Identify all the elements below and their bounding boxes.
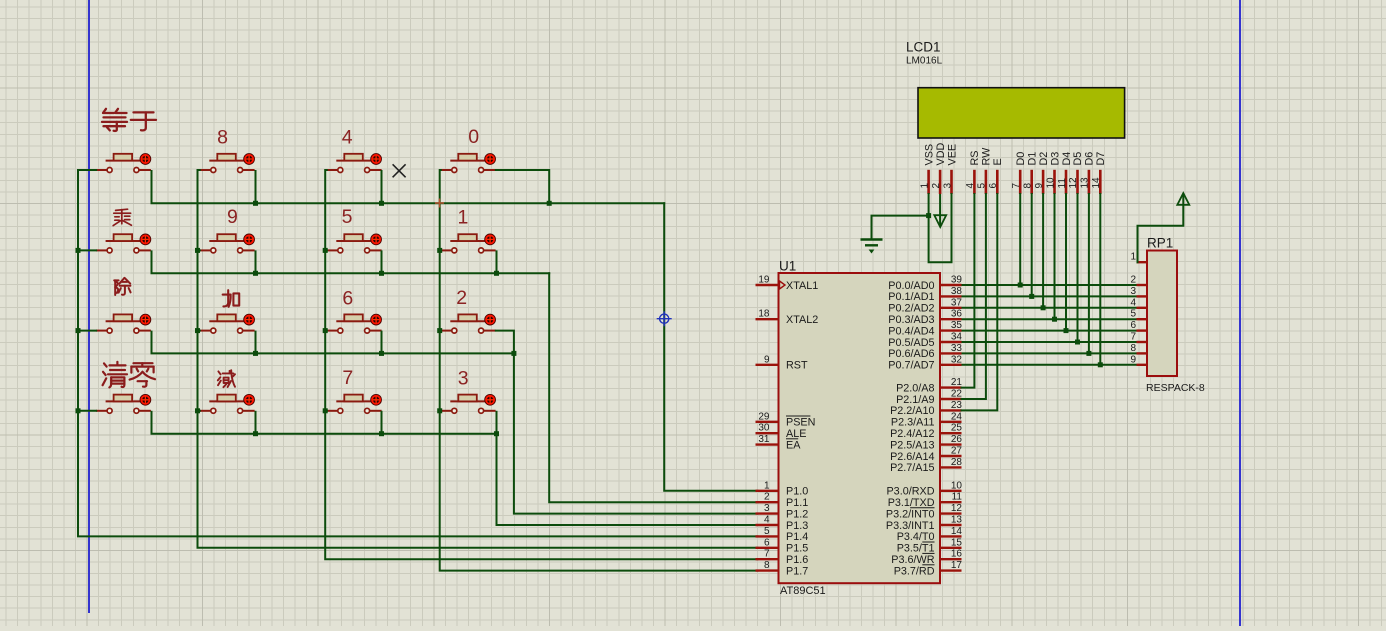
svg-text:31: 31 <box>758 434 770 445</box>
pin 38 (P0.1/AD1) stub <box>940 295 962 297</box>
svg-text:6: 6 <box>342 288 353 310</box>
wire keypad column 4 vertical <box>440 170 758 571</box>
svg-text:PSEN: PSEN <box>786 417 815 429</box>
svg-text:XTAL2: XTAL2 <box>786 314 818 326</box>
svg-text:2: 2 <box>456 287 467 309</box>
push button BTN0 (0) <box>441 154 496 173</box>
wire P0.0 to RP1 pin 2 <box>962 284 1137 286</box>
RP1 pin 7 stub <box>1137 341 1148 343</box>
svg-text:D1: D1 <box>1027 152 1039 166</box>
RP1 pin 5 stub <box>1137 318 1148 320</box>
wire column 1 to button row 3 <box>78 330 97 332</box>
wire RP1 pin1 to power <box>1138 195 1184 263</box>
RP1 pin 3 stub <box>1137 295 1148 297</box>
label 零 (ling) <box>130 363 155 387</box>
pin 29 (PSEN) stub <box>756 421 779 423</box>
svg-text:4: 4 <box>965 183 976 189</box>
svg-text:6: 6 <box>988 183 999 189</box>
svg-text:16: 16 <box>951 549 963 560</box>
wire P0.5 to RP1 pin 7 <box>962 341 1137 343</box>
svg-text:6: 6 <box>1130 320 1136 331</box>
junction column 4 row 3 <box>437 328 442 333</box>
label 清 (qing) <box>103 362 127 388</box>
svg-text:35: 35 <box>951 320 963 331</box>
label 等 (deng) <box>102 109 127 131</box>
wire button row 3 col 4 to x514 <box>496 331 514 354</box>
wire LCD D6 to P0.6 <box>1088 194 1090 353</box>
svg-text:0: 0 <box>468 126 479 148</box>
wire LCD D5 to P0.5 <box>1077 194 1079 342</box>
svg-text:D2: D2 <box>1038 152 1050 166</box>
power terminal up arrow <box>1177 193 1189 205</box>
svg-text:P3.1/TXD: P3.1/TXD <box>888 497 935 509</box>
wire VSS-VEE ground loop <box>929 194 952 262</box>
wire button row 4 col 4 drop <box>496 411 498 434</box>
wire button row 1 col 1 drop <box>151 170 153 203</box>
junction D4 <box>1064 328 1069 333</box>
svg-text:14: 14 <box>951 526 963 537</box>
svg-text:RS: RS <box>969 151 981 166</box>
wire column 2 to button row 2 <box>198 249 201 251</box>
svg-text:RESPACK-8: RESPACK-8 <box>1146 382 1205 394</box>
op U1 chip body <box>779 273 941 583</box>
svg-text:2: 2 <box>1130 275 1136 286</box>
clock marker XTAL1 <box>780 281 786 289</box>
wire row1 to P1.0 <box>664 203 757 491</box>
svg-text:P0.0/AD0: P0.0/AD0 <box>888 280 934 292</box>
wire LCD D2 to P0.2 <box>1042 194 1044 308</box>
svg-text:U1: U1 <box>779 259 796 274</box>
pin 2 (P1.1) stub <box>756 501 779 503</box>
pin 39 (P0.0/AD0) stub <box>940 284 962 286</box>
svg-text:22: 22 <box>951 389 963 400</box>
pin 22 (P2.1/A9) stub <box>940 398 962 400</box>
push button BTNm (减) <box>200 394 255 413</box>
svg-text:P1.5: P1.5 <box>786 543 808 555</box>
LCD pin 11 (D4) <box>1065 170 1068 194</box>
wire column 4 to button row 2 <box>440 249 442 251</box>
wire column 3 to button row 1 <box>325 169 328 171</box>
push button BTN5 (5) <box>327 234 382 253</box>
svg-text:P2.6/A14: P2.6/A14 <box>890 451 934 463</box>
LCD pin 14 (D7) <box>1099 170 1102 194</box>
push button BTN8 (8) <box>200 154 255 173</box>
wire LCD D7 to P0.7 <box>1099 194 1101 365</box>
svg-text:13: 13 <box>951 515 963 526</box>
wire button row 2 col 3 drop <box>381 250 383 273</box>
svg-text:P0.6/AD6: P0.6/AD6 <box>888 348 934 360</box>
LCD pin 8 (D1) <box>1030 170 1033 194</box>
pin 13 (P3.3/INT1) stub <box>940 524 962 526</box>
svg-text:5: 5 <box>1130 309 1136 320</box>
pin 15 (P3.5/T1) stub <box>940 547 962 549</box>
pin 5 (P1.4) stub <box>756 535 779 537</box>
push button BTNx (乘) <box>96 234 151 253</box>
push button BTN= (等于) <box>96 154 151 173</box>
svg-text:P2.1/A9: P2.1/A9 <box>896 394 934 406</box>
svg-text:30: 30 <box>758 423 770 434</box>
svg-text:VDD: VDD <box>935 143 947 166</box>
svg-text:LCD1: LCD1 <box>906 40 941 55</box>
pin 23 (P2.2/A10) stub <box>940 409 962 411</box>
push button BTN6 (6) <box>327 314 382 333</box>
svg-text:P0.2/AD2: P0.2/AD2 <box>888 303 934 315</box>
pin 30 (ALE) stub <box>756 432 779 434</box>
pin 14 (P3.4/T0) stub <box>940 535 962 537</box>
svg-text:12: 12 <box>951 503 963 514</box>
pin 24 (P2.3/A11) stub <box>940 421 962 423</box>
junction D6 <box>1086 351 1091 356</box>
wire column 3 to button row 3 <box>325 330 328 332</box>
svg-text:9: 9 <box>1034 183 1045 189</box>
pin 17 (P3.7/RD) stub <box>940 569 962 571</box>
junction column 3 row 3 <box>323 328 328 333</box>
svg-text:4: 4 <box>1130 297 1136 308</box>
pin 27 (P2.6/A14) stub <box>940 455 962 457</box>
display LCD1 body <box>918 88 1125 138</box>
pin 25 (P2.4/A12) stub <box>940 432 962 434</box>
LCD pin 9 (D2) <box>1042 170 1045 194</box>
pin 8 (P1.7) stub <box>756 569 779 571</box>
svg-text:6: 6 <box>764 537 770 548</box>
pin 4 (P1.3) stub <box>756 524 779 526</box>
pin 9 (RST) stub <box>756 364 779 366</box>
push button BTNd (除) <box>96 314 151 333</box>
svg-text:D3: D3 <box>1049 152 1061 166</box>
svg-text:P0.7/AD7: P0.7/AD7 <box>888 360 934 372</box>
wire column 4 to button row 1 <box>440 169 442 171</box>
wire row4 to P1.3 <box>497 434 758 525</box>
wire button row 3 col 2 drop <box>255 331 257 354</box>
svg-text:D7: D7 <box>1095 152 1107 166</box>
junction column 2 row 3 <box>195 328 200 333</box>
junction column 1 row 2 <box>76 248 81 253</box>
wire P0.7 to RP1 pin 9 <box>962 364 1137 366</box>
svg-text:1: 1 <box>458 206 469 228</box>
svg-text:P3.3/INT1: P3.3/INT1 <box>886 520 935 532</box>
wire column 4 to button row 3 <box>440 330 442 332</box>
push button BTN7 (7) <box>327 394 382 413</box>
LCD pin 6 (E) <box>996 170 999 194</box>
wire column 2 to button row 1 <box>198 169 201 171</box>
marker small red cross <box>435 199 444 208</box>
wire button row 1 col 3 drop <box>381 170 383 203</box>
wire to ground <box>872 216 929 239</box>
svg-text:E: E <box>992 158 1004 165</box>
RP1 pin 4 stub <box>1137 307 1148 309</box>
svg-text:11: 11 <box>952 492 963 503</box>
svg-text:15: 15 <box>951 537 963 548</box>
LCD pin 4 (RS) <box>973 170 976 194</box>
svg-text:P3.6/WR: P3.6/WR <box>891 554 934 566</box>
junction row1-col2 <box>253 201 258 206</box>
svg-text:18: 18 <box>758 309 770 320</box>
svg-text:P2.3/A11: P2.3/A11 <box>891 417 935 429</box>
pin 10 (P3.0/RXD) stub <box>940 490 962 492</box>
svg-text:XTAL1: XTAL1 <box>786 280 818 292</box>
wire button row 3 col 3 drop <box>381 331 383 354</box>
svg-text:1: 1 <box>1130 252 1136 263</box>
svg-text:P3.2/INT0: P3.2/INT0 <box>886 508 935 520</box>
LCD pin 13 (D6) <box>1088 170 1091 194</box>
junction row1-col4 <box>547 201 552 206</box>
wire button row 4 col 1 drop <box>151 411 153 434</box>
svg-text:P3.7/RD: P3.7/RD <box>894 565 935 577</box>
wire column 3 to button row 4 <box>325 410 328 412</box>
svg-text:32: 32 <box>951 354 963 365</box>
svg-text:7: 7 <box>764 549 770 560</box>
svg-text:P1.2: P1.2 <box>786 508 808 520</box>
label 于 (yu) <box>131 112 156 130</box>
wire row3 to P1.2 <box>514 353 758 513</box>
wire button row 4 col 2 drop <box>255 411 257 434</box>
junction row4-col3 <box>379 431 384 436</box>
svg-text:3: 3 <box>458 367 469 389</box>
pin 37 (P0.2/AD2) stub <box>940 307 962 309</box>
svg-text:21: 21 <box>951 377 963 388</box>
wire LCD D0 to P0.0 <box>1019 194 1021 285</box>
junction D5 <box>1075 340 1080 345</box>
svg-text:3: 3 <box>1130 286 1136 297</box>
junction row2-col2 <box>253 271 258 276</box>
svg-text:RP1: RP1 <box>1147 236 1173 251</box>
wire button row 2 col 4 drop <box>496 250 498 273</box>
svg-text:12: 12 <box>1068 177 1079 189</box>
svg-text:8: 8 <box>1023 183 1034 189</box>
wire button row 1 col 2 drop <box>255 170 257 203</box>
junction D1 <box>1029 294 1034 299</box>
svg-text:24: 24 <box>951 411 963 422</box>
wire button row 3 col 1 drop <box>151 331 153 354</box>
svg-text:LM016L: LM016L <box>906 56 943 67</box>
wire P0.1 to RP1 pin 3 <box>962 295 1137 297</box>
svg-text:P1.4: P1.4 <box>786 531 808 543</box>
pin 21 (P2.0/A8) stub <box>940 386 962 388</box>
wire LCD D3 to P0.3 <box>1054 194 1056 319</box>
wire button row 2 col 2 drop <box>255 250 257 273</box>
svg-text:P3.0/RXD: P3.0/RXD <box>886 486 934 498</box>
push button BTNc (清零) <box>96 394 151 413</box>
svg-text:5: 5 <box>977 183 988 189</box>
wire LCD RS to U1 pin 21 <box>962 194 975 388</box>
marker cross X <box>393 164 406 177</box>
resistor pack RP1 body <box>1147 251 1177 377</box>
svg-text:P0.1/AD1: P0.1/AD1 <box>888 291 934 303</box>
svg-text:10: 10 <box>951 480 963 491</box>
svg-text:29: 29 <box>758 411 770 422</box>
wire keypad column 3 vertical <box>325 170 757 559</box>
junction D7 <box>1098 362 1103 367</box>
wire column 1 to button row 4 <box>78 410 97 412</box>
RP1 pin 1 stub <box>1137 261 1148 263</box>
pin 26 (P2.5/A13) stub <box>940 443 962 445</box>
svg-text:P2.7/A15: P2.7/A15 <box>890 462 934 474</box>
wire P0.3 to RP1 pin 5 <box>962 318 1137 320</box>
wire LCD D4 to P0.4 <box>1065 194 1067 331</box>
svg-text:1: 1 <box>919 183 930 189</box>
wire P0.6 to RP1 pin 8 <box>962 352 1137 354</box>
svg-text:4: 4 <box>342 126 353 148</box>
svg-text:EA: EA <box>786 439 801 451</box>
pin 16 (P3.6/WR) stub <box>940 558 962 560</box>
svg-text:D5: D5 <box>1072 152 1084 166</box>
svg-text:10: 10 <box>1045 177 1056 189</box>
svg-text:3: 3 <box>764 503 770 514</box>
svg-text:9: 9 <box>764 354 770 365</box>
wire row2 to P1.1 <box>549 273 757 502</box>
svg-text:P2.5/A13: P2.5/A13 <box>890 439 934 451</box>
junction row2-col4 <box>494 271 499 276</box>
svg-text:25: 25 <box>951 423 963 434</box>
svg-text:8: 8 <box>217 126 228 148</box>
RP1 pin 9 stub <box>1137 364 1148 366</box>
svg-text:28: 28 <box>951 457 963 468</box>
wire keypad row 3 net <box>152 352 514 354</box>
svg-text:19: 19 <box>758 275 770 286</box>
power terminal down arrow <box>934 215 946 227</box>
pin 33 (P0.6/AD6) stub <box>940 352 962 354</box>
svg-text:23: 23 <box>951 400 963 411</box>
svg-text:ALE: ALE <box>786 428 806 440</box>
svg-text:D6: D6 <box>1084 152 1096 166</box>
LCD pin 12 (D5) <box>1076 170 1079 194</box>
wire P0.4 to RP1 pin 6 <box>962 330 1137 332</box>
svg-text:8: 8 <box>764 560 770 571</box>
svg-text:2: 2 <box>764 492 770 503</box>
svg-text:RST: RST <box>786 360 808 372</box>
wire button row 4 col 3 drop <box>381 411 383 434</box>
push button BTN1 (1) <box>441 234 496 253</box>
svg-text:D4: D4 <box>1061 152 1073 166</box>
wire column 2 to button row 4 <box>198 410 201 412</box>
svg-text:P2.0/A8: P2.0/A8 <box>896 382 934 394</box>
pin 32 (P0.7/AD7) stub <box>940 364 962 366</box>
svg-text:D0: D0 <box>1015 152 1027 166</box>
svg-text:P3.5/T1: P3.5/T1 <box>897 543 935 555</box>
junction column 4 row 2 <box>437 248 442 253</box>
pin 35 (P0.4/AD4) stub <box>940 329 962 331</box>
RP1 pin 8 stub <box>1137 352 1148 354</box>
svg-text:7: 7 <box>1130 332 1136 343</box>
svg-text:P2.2/A10: P2.2/A10 <box>890 405 934 417</box>
svg-text:26: 26 <box>951 434 963 445</box>
wire keypad row 4 net <box>152 433 497 435</box>
svg-text:P3.4/T0: P3.4/T0 <box>897 531 935 543</box>
label 加 (jia) <box>223 290 240 307</box>
wire keypad row 1 net <box>152 202 665 204</box>
junction row3-col3 <box>379 351 384 356</box>
svg-text:7: 7 <box>1011 183 1022 189</box>
junction row4-col2 <box>253 431 258 436</box>
junction D3 <box>1052 317 1057 322</box>
junction D2 <box>1041 305 1046 310</box>
svg-text:P0.3/AD3: P0.3/AD3 <box>888 314 934 326</box>
wire VDD to power arrow <box>939 194 941 226</box>
junction column 1 row 4 <box>76 408 81 413</box>
push button BTN2 (2) <box>441 314 496 333</box>
LCD pin 7 (D0) <box>1019 170 1022 194</box>
junction row3-col2 <box>253 351 258 356</box>
junction row4-col4 <box>494 431 499 436</box>
svg-text:13: 13 <box>1080 177 1091 189</box>
wire column 1 to button row 2 <box>78 249 97 251</box>
pin 34 (P0.5/AD5) stub <box>940 341 962 343</box>
svg-text:P1.0: P1.0 <box>786 486 808 498</box>
pin 18 (XTAL2) stub <box>756 318 779 320</box>
junction row3-col4 <box>511 351 516 356</box>
LCD pin 2 (VDD) <box>939 170 942 194</box>
wire button row 2 col 1 drop <box>151 250 153 273</box>
sheet border left <box>88 0 90 613</box>
svg-text:36: 36 <box>951 309 963 320</box>
junction D0 <box>1018 283 1023 288</box>
svg-text:5: 5 <box>342 206 353 228</box>
junction column 2 row 4 <box>195 408 200 413</box>
svg-text:VSS: VSS <box>923 144 935 166</box>
svg-text:VEE: VEE <box>946 144 958 166</box>
pin 11 (P3.1/TXD) stub <box>940 501 962 503</box>
wire P0.2 to RP1 pin 4 <box>962 307 1137 309</box>
LCD pin 3 (VEE) <box>950 170 953 194</box>
LCD pin 5 (RW) <box>985 170 988 194</box>
svg-text:8: 8 <box>1130 343 1136 354</box>
junction column 3 row 2 <box>323 248 328 253</box>
pin 31 (EA) stub <box>756 443 779 445</box>
wire column 1 to button row 1 <box>78 169 97 171</box>
wire button row 1 col 4 to x549 <box>496 170 549 203</box>
svg-text:P1.6: P1.6 <box>786 554 808 566</box>
svg-text:9: 9 <box>227 206 238 228</box>
svg-text:11: 11 <box>1057 178 1068 189</box>
svg-text:P1.3: P1.3 <box>786 520 808 532</box>
svg-text:4: 4 <box>764 515 770 526</box>
marker origin diamond <box>657 311 672 326</box>
svg-text:37: 37 <box>951 297 963 308</box>
wire LCD E to U1 pin 23 <box>962 194 998 410</box>
RP1 pin 6 stub <box>1137 329 1148 331</box>
LCD pin 1 (VSS) <box>927 170 930 194</box>
svg-text:1: 1 <box>764 480 770 491</box>
svg-text:P0.5/AD5: P0.5/AD5 <box>888 337 934 349</box>
wire keypad column 2 vertical <box>198 170 758 548</box>
label 乘 (cheng) <box>113 209 131 225</box>
push button BTN3 (3) <box>441 394 496 413</box>
pin 1 (P1.0) stub <box>756 490 779 492</box>
svg-text:34: 34 <box>951 332 963 343</box>
svg-text:P1.1: P1.1 <box>786 497 808 509</box>
junction column 1 row 3 <box>76 328 81 333</box>
LCD pin 10 (D3) <box>1053 170 1056 194</box>
pin 6 (P1.5) stub <box>756 547 779 549</box>
label 减 (jian) <box>218 370 235 387</box>
svg-text:27: 27 <box>951 446 963 457</box>
label 除 (chu) <box>114 278 130 295</box>
junction row2-col3 <box>379 271 384 276</box>
svg-text:14: 14 <box>1091 177 1102 189</box>
junction column 2 row 2 <box>195 248 200 253</box>
svg-text:39: 39 <box>951 275 963 286</box>
junction column 4 row 4 <box>437 408 442 413</box>
svg-text:5: 5 <box>764 526 770 537</box>
ground symbol <box>861 240 883 254</box>
RP1 pin 2 stub <box>1137 284 1148 286</box>
junction VSS-ground <box>926 213 931 218</box>
pin 28 (P2.7/A15) stub <box>940 466 962 468</box>
wire LCD D1 to P0.1 <box>1031 194 1033 296</box>
pin 12 (P3.2/INT0) stub <box>940 512 962 514</box>
svg-text:AT89C51: AT89C51 <box>780 585 826 597</box>
pin 3 (P1.2) stub <box>756 512 779 514</box>
